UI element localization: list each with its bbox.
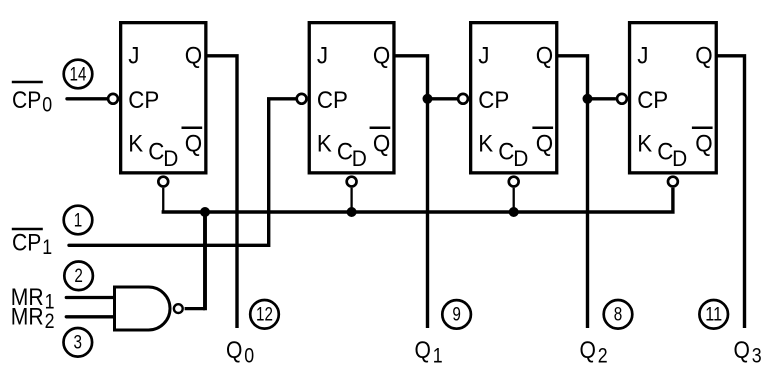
svg-text:D: D: [672, 146, 687, 171]
wire CD stem of FF2 down to reset bus: [350, 188, 352, 212]
pin label Q-bar (FF3): [532, 128, 553, 158]
svg-text:CP: CP: [478, 87, 509, 114]
CD inversion bubble (FF2): [347, 177, 357, 187]
net label Q0: [226, 337, 254, 367]
pin label Q-bar (FF1): [182, 128, 203, 158]
svg-text:Q: Q: [734, 337, 750, 364]
wire FF1 Q output to Q0 line: [207, 56, 238, 328]
svg-text:CP: CP: [12, 230, 41, 257]
pin label J (FF1): [128, 42, 139, 69]
CP inversion bubble (FF2): [297, 94, 307, 104]
CD inversion bubble (FF1): [158, 177, 168, 187]
pin label CD (FF4): [657, 139, 687, 172]
svg-text:3: 3: [752, 344, 762, 367]
pin label J (FF4): [637, 42, 648, 69]
pin number 2: [64, 262, 93, 291]
wire FF3 Q output to Q2 line: [557, 56, 587, 328]
svg-text:CP: CP: [12, 87, 41, 114]
pin number 11: [699, 300, 728, 329]
svg-text:0: 0: [244, 344, 254, 367]
CP inversion bubble (FF3): [458, 94, 468, 104]
pin label Q (FF3): [536, 42, 553, 69]
svg-text:12: 12: [256, 304, 273, 326]
net label Q2: [580, 337, 608, 367]
junction dot FF3 CD on bus: [509, 207, 519, 217]
wire MR1 input to NAND: [66, 296, 114, 299]
pin label CD (FF3): [498, 139, 528, 172]
svg-text:K: K: [317, 131, 332, 158]
svg-text:Q: Q: [536, 131, 553, 158]
svg-text:Q: Q: [580, 337, 596, 364]
svg-text:9: 9: [452, 304, 461, 326]
pin label K (FF1): [128, 131, 143, 158]
pin label Q-bar (FF2): [370, 128, 391, 158]
svg-text:K: K: [637, 131, 652, 158]
svg-text:C: C: [657, 139, 673, 166]
pin label CP (FF1): [128, 87, 159, 114]
junction dot FF2 CD on bus: [347, 207, 357, 217]
pin label CP (FF4): [637, 87, 668, 114]
net label Q1: [415, 337, 443, 367]
pin label K (FF4): [637, 131, 652, 158]
CP inversion bubble (FF4): [617, 94, 627, 104]
pin label Q-bar (FF4): [692, 128, 713, 158]
flip-flop FF3 body: [471, 23, 557, 173]
svg-text:Q: Q: [226, 337, 242, 364]
svg-text:11: 11: [705, 304, 722, 326]
svg-text:Q: Q: [695, 42, 712, 69]
svg-text:D: D: [513, 146, 528, 171]
svg-text:2: 2: [45, 310, 55, 333]
net label MR2: [11, 304, 55, 334]
svg-text:0: 0: [42, 93, 52, 116]
pin label CP (FF3): [478, 87, 509, 114]
svg-text:Q: Q: [415, 337, 431, 364]
svg-text:14: 14: [70, 63, 87, 85]
svg-text:3: 3: [74, 332, 83, 354]
pin number 8: [604, 300, 633, 329]
pin label CD (FF1): [148, 139, 178, 172]
svg-text:Q: Q: [373, 131, 390, 158]
svg-text:CP: CP: [637, 87, 668, 114]
svg-text:D: D: [352, 146, 367, 171]
CD inversion bubble (FF4): [668, 177, 678, 187]
NAND gate U5 body: [115, 287, 171, 330]
svg-text:J: J: [317, 42, 328, 69]
CP inversion bubble (FF1): [108, 94, 118, 104]
svg-text:D: D: [163, 146, 178, 171]
pin label Q (FF1): [185, 42, 202, 69]
junction dot Q2/CP4: [583, 94, 593, 104]
wire CD stem of FF1 down to reset bus: [162, 188, 164, 212]
svg-text:MR: MR: [11, 304, 44, 331]
pin label CD (FF2): [337, 139, 367, 172]
wire FF4 Q output to Q3 line: [717, 56, 745, 328]
pin label Q (FF2): [373, 42, 390, 69]
svg-text:1: 1: [42, 236, 52, 259]
svg-text:C: C: [498, 139, 514, 166]
pin number 3: [64, 328, 93, 357]
NAND gate U5 output bubble: [174, 304, 183, 313]
pin label K (FF2): [317, 131, 332, 158]
svg-text:C: C: [148, 139, 164, 166]
svg-text:2: 2: [598, 344, 608, 367]
flip-flop FF4 body: [630, 23, 717, 173]
wire CD stem of FF3 down to reset bus: [513, 188, 515, 212]
wire Q1 line to FF3 clock bubble: [428, 97, 458, 100]
wire Q2 line to FF4 clock bubble: [588, 97, 616, 100]
pin label J (FF2): [317, 42, 328, 69]
pin number 1: [64, 206, 93, 235]
svg-text:Q: Q: [185, 42, 202, 69]
svg-text:CP: CP: [128, 87, 159, 114]
svg-text:2: 2: [74, 265, 83, 287]
wire CP0 input to FF1 clock bubble: [67, 97, 107, 100]
svg-text:Q: Q: [373, 42, 390, 69]
pin label CP (FF2): [317, 87, 348, 114]
net label CP0 (active low): [12, 82, 52, 116]
pin label J (FF3): [478, 42, 489, 69]
svg-text:1: 1: [74, 209, 83, 231]
flip-flop FF2 body: [309, 23, 394, 173]
pin label K (FF3): [478, 131, 493, 158]
CD inversion bubble (FF3): [509, 177, 519, 187]
svg-text:Q: Q: [695, 131, 712, 158]
pin number 14: [64, 60, 93, 89]
svg-text:K: K: [128, 131, 143, 158]
flip-flop FF1 body: [121, 23, 206, 173]
wire CP1 input line up to FF2 clock bubble: [69, 99, 296, 246]
pin label Q (FF4): [695, 42, 712, 69]
wire FF2 Q output to Q1 line: [395, 56, 428, 328]
net label Q3: [734, 337, 762, 367]
wire NAND output up to CD bus: [185, 212, 205, 310]
svg-text:J: J: [478, 42, 489, 69]
junction dot Q1/CP3: [423, 94, 433, 104]
svg-text:K: K: [478, 131, 493, 158]
pin number 12: [250, 300, 279, 329]
net label MR1: [11, 284, 55, 314]
svg-text:C: C: [337, 139, 353, 166]
svg-text:8: 8: [614, 304, 623, 326]
svg-text:1: 1: [433, 344, 443, 367]
svg-text:J: J: [637, 42, 648, 69]
pin number 9: [442, 300, 471, 329]
svg-text:Q: Q: [536, 42, 553, 69]
wire master-reset bus (CD line): [162, 188, 673, 212]
wire MR2 input to NAND: [66, 315, 114, 318]
svg-text:J: J: [128, 42, 139, 69]
svg-text:CP: CP: [317, 87, 348, 114]
net label CP1 (active low): [12, 229, 52, 259]
junction dot NAND output on CD bus: [200, 207, 210, 217]
svg-text:Q: Q: [185, 131, 202, 158]
